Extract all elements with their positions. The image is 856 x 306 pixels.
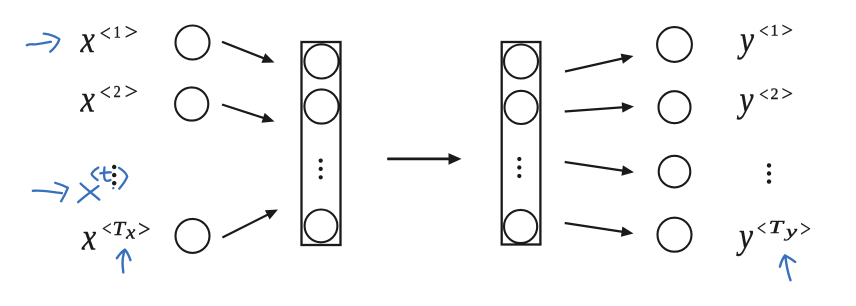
arrow: decoder to output Ty xyxy=(565,223,634,237)
node: encoder unit 1 xyxy=(304,44,338,78)
arrow: input 1 to encoder xyxy=(222,42,275,63)
node: input unit 2 xyxy=(175,87,208,120)
arrow: input Tx to encoder xyxy=(222,210,278,238)
arrow: decoder to output 1 xyxy=(565,54,634,72)
svg-text:>: > xyxy=(123,79,139,105)
node: encoder unit n xyxy=(305,210,338,243)
svg-text:y: y xyxy=(736,80,754,121)
svg-text:x: x xyxy=(80,19,95,61)
svg-text:y: y xyxy=(737,19,755,60)
node: output unit Ty xyxy=(658,218,692,252)
svg-text:1: 1 xyxy=(114,23,121,42)
node: output unit 2 xyxy=(659,91,691,123)
node: decoder unit 1 xyxy=(504,45,538,79)
svg-text:<: < xyxy=(99,80,112,106)
annotation: blue handwritten x<t> with arrow xyxy=(33,167,127,202)
node: output unit 3 xyxy=(659,156,691,188)
svg-text:y: y xyxy=(783,222,798,241)
decoder ellipsis dots xyxy=(517,157,521,178)
node: encoder unit 2 xyxy=(304,89,338,123)
svg-text:>: > xyxy=(799,217,812,243)
label y<Ty> xyxy=(736,216,812,257)
encoder ellipsis dots xyxy=(319,159,323,180)
svg-text:>: > xyxy=(137,217,152,243)
svg-text:>: > xyxy=(780,18,794,42)
node: decoder unit 2 xyxy=(504,91,537,124)
arrow: decoder to output 3 xyxy=(565,162,634,176)
svg-text:y: y xyxy=(736,216,754,257)
node: input unit 1 xyxy=(176,26,210,60)
svg-text:2: 2 xyxy=(771,86,779,103)
node: output unit 1 xyxy=(657,27,692,62)
arrow: encoder to decoder xyxy=(387,153,461,165)
arrow: decoder to output 2 xyxy=(565,102,634,112)
annotation: blue up arrow under y<Ty> xyxy=(780,255,795,280)
svg-text:>: > xyxy=(123,20,139,46)
svg-text:T: T xyxy=(113,218,127,240)
annotation: blue up arrow under x<Tx> xyxy=(117,250,130,273)
svg-text:<: < xyxy=(99,21,112,47)
encoder layer box xyxy=(302,42,341,245)
svg-text:<: < xyxy=(101,217,112,241)
label y<2> xyxy=(736,80,794,121)
svg-text:T: T xyxy=(769,217,786,237)
svg-text:x: x xyxy=(80,79,95,121)
svg-text:<: < xyxy=(758,21,769,43)
output label ellipsis dots xyxy=(767,163,771,184)
node: input unit Tx xyxy=(176,219,210,253)
label x<Tx> xyxy=(81,217,151,259)
svg-text:2: 2 xyxy=(114,82,121,101)
label x<1> xyxy=(80,19,139,61)
svg-text:x: x xyxy=(81,217,96,259)
arrow: input 2 to encoder xyxy=(222,105,275,123)
node: decoder unit n xyxy=(504,210,537,243)
svg-text:<: < xyxy=(758,84,769,106)
svg-text:<: < xyxy=(756,217,767,241)
svg-text:>: > xyxy=(780,81,794,105)
label x<2> xyxy=(80,79,139,121)
input label ellipsis dots xyxy=(112,165,116,186)
svg-text:1: 1 xyxy=(771,23,779,40)
decoder layer box xyxy=(502,42,541,245)
annotation: blue arrow pointing at label x<1> xyxy=(27,34,60,52)
svg-text:x: x xyxy=(125,223,136,244)
label y<1> xyxy=(737,18,794,60)
